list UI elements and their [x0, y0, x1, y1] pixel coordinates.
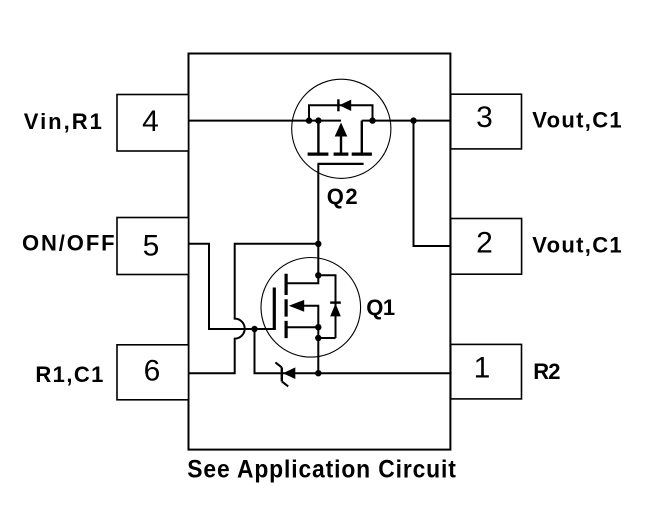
svg-text:3: 3 — [476, 101, 493, 134]
svg-text:Q2: Q2 — [327, 184, 360, 209]
svg-text:Vout,C1: Vout,C1 — [532, 108, 623, 133]
svg-text:Vin,R1: Vin,R1 — [24, 109, 104, 134]
svg-text:5: 5 — [143, 230, 160, 263]
svg-text:Q1: Q1 — [366, 295, 395, 320]
svg-text:1: 1 — [474, 352, 491, 385]
svg-text:R1,C1: R1,C1 — [35, 362, 104, 387]
svg-text:4: 4 — [142, 105, 159, 138]
svg-text:R2: R2 — [533, 359, 560, 384]
svg-text:Vout,C1: Vout,C1 — [532, 233, 623, 258]
svg-text:See Application Circuit: See Application Circuit — [187, 456, 456, 484]
svg-text:6: 6 — [144, 355, 161, 388]
svg-text:ON/OFF: ON/OFF — [22, 230, 117, 255]
svg-text:2: 2 — [476, 226, 493, 259]
